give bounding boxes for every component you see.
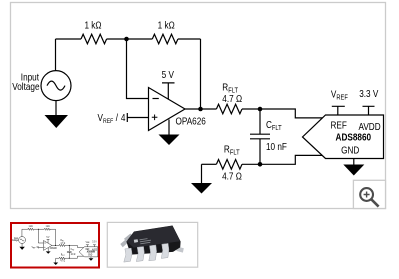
chip body silhouette <box>126 226 180 255</box>
main schematic <box>12 20 383 194</box>
magnifier icon <box>360 188 378 207</box>
chip photo <box>120 226 184 263</box>
chip right pin <box>176 247 184 253</box>
TI logo mark <box>134 239 138 243</box>
zoom button frame <box>353 180 385 208</box>
panel frame <box>11 3 386 209</box>
thumbnail 2 frame <box>107 222 197 267</box>
thumbnail 1 red frame <box>11 223 99 268</box>
chip top face <box>127 226 180 248</box>
chip front pins <box>124 243 169 262</box>
thumbnail 1 mini schematic <box>12 226 98 265</box>
chip back pins <box>120 234 133 248</box>
